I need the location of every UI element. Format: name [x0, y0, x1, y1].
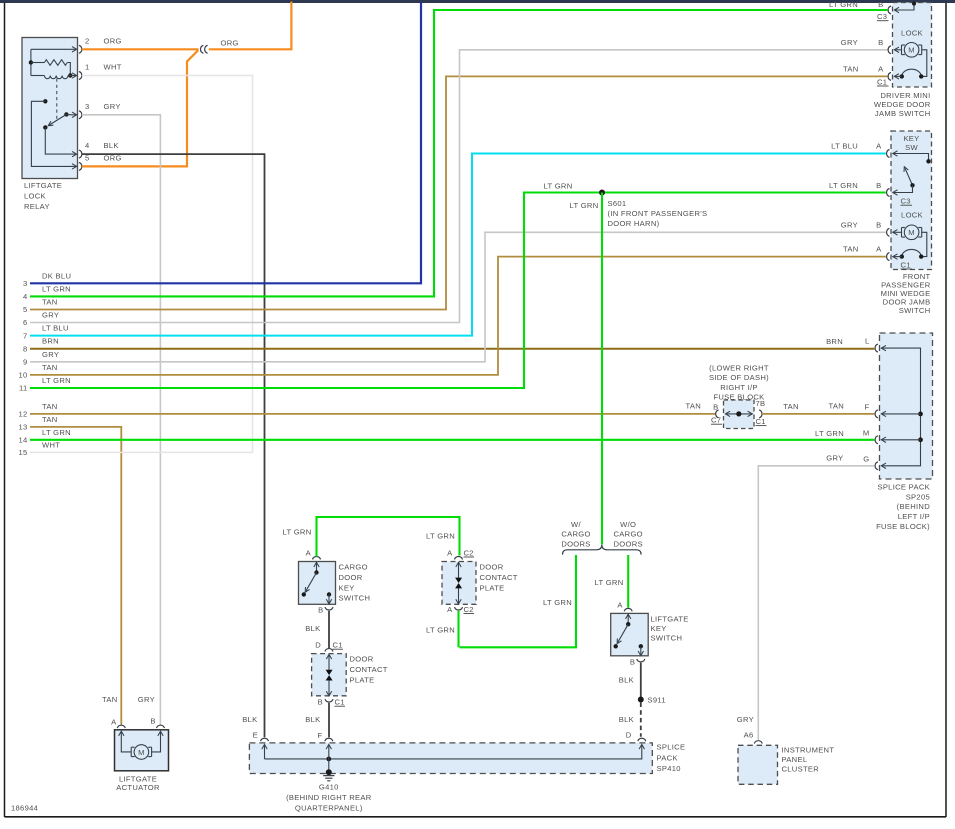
svg-text:SP410: SP410 — [657, 764, 681, 773]
svg-text:A: A — [111, 717, 117, 726]
svg-text:C1: C1 — [335, 698, 345, 707]
svg-text:L: L — [865, 337, 870, 346]
svg-text:186944: 186944 — [11, 803, 38, 812]
splice pack SP205 — [876, 333, 932, 531]
svg-text:DRIVER MINI: DRIVER MINI — [880, 91, 930, 100]
svg-text:LT GRN: LT GRN — [426, 626, 455, 635]
fuse block connector contacts — [716, 410, 762, 418]
wire TAN row 10 to passenger jamb switch A — [18, 257, 885, 380]
svg-text:W/O: W/O — [620, 520, 636, 529]
wire ORG relay pin 2 to inline connector — [82, 48, 199, 50]
svg-text:PLATE: PLATE — [480, 583, 505, 592]
svg-text:A: A — [876, 142, 882, 151]
svg-text:C3: C3 — [901, 197, 911, 206]
svg-text:TAN: TAN — [42, 298, 58, 307]
liftgate key switch pin A — [617, 600, 632, 611]
svg-text:GRY: GRY — [138, 695, 155, 704]
liftgate actuator motor — [119, 731, 164, 759]
svg-text:LT GRN: LT GRN — [829, 0, 858, 9]
svg-text:B: B — [318, 606, 323, 615]
svg-text:SPLICE: SPLICE — [657, 743, 686, 752]
svg-text:E: E — [253, 731, 258, 740]
svg-text:ACTUATOR: ACTUATOR — [116, 783, 160, 792]
door contact plate C2 contact symbol — [455, 556, 463, 610]
svg-text:GRY: GRY — [841, 38, 858, 47]
door contact plate C1 — [312, 654, 388, 696]
relay pin 1 — [72, 63, 122, 80]
svg-text:TAN: TAN — [685, 402, 701, 411]
svg-text:CONTACT: CONTACT — [350, 665, 388, 674]
svg-text:LIFTGATE: LIFTGATE — [651, 615, 689, 624]
svg-text:KEY: KEY — [903, 134, 919, 143]
svg-text:WHT: WHT — [104, 63, 122, 72]
svg-text:GRY: GRY — [826, 454, 843, 463]
svg-text:G410: G410 — [319, 782, 339, 791]
passenger lock motor — [887, 211, 927, 261]
wire BLK relay pin 4 to splice pack SP410 — [82, 154, 265, 737]
wire LT GRN without-cargo-doors branch — [595, 555, 629, 608]
splice pack SP410 pin F label — [318, 731, 323, 740]
instrument panel cluster — [738, 745, 834, 784]
splice pack SP205 pin labels L F M G — [815, 337, 870, 464]
svg-text:KEY: KEY — [651, 624, 667, 633]
svg-text:TAN: TAN — [42, 363, 58, 372]
svg-text:LT GRN: LT GRN — [829, 181, 858, 190]
splice pack SP410 bus — [261, 738, 646, 772]
svg-text:LIFTGATE: LIFTGATE — [24, 181, 62, 190]
svg-text:3: 3 — [85, 102, 90, 111]
door contact plate C1 contact symbol — [325, 654, 333, 702]
relay switch — [31, 99, 71, 166]
passenger key switch contacts — [887, 134, 931, 197]
right I/P fuse block connector — [709, 363, 769, 428]
liftgate lock relay — [22, 38, 78, 212]
svg-text:S601: S601 — [608, 199, 627, 208]
svg-text:SW: SW — [905, 143, 918, 152]
svg-text:A: A — [306, 548, 312, 557]
svg-text:B: B — [878, 0, 883, 9]
ground G410 — [286, 769, 372, 812]
svg-text:B: B — [876, 220, 881, 229]
svg-text:4: 4 — [85, 141, 90, 150]
svg-text:SPLICE PACK: SPLICE PACK — [877, 482, 930, 491]
svg-text:LT GRN: LT GRN — [570, 201, 599, 210]
svg-text:TAN: TAN — [102, 695, 118, 704]
liftgate actuator pin B — [138, 695, 165, 728]
wire BLK liftgate key switch B to S911 — [619, 663, 641, 700]
svg-text:CARGO: CARGO — [339, 563, 368, 572]
wire TAN row 5 to driver jamb switch A — [23, 76, 887, 314]
svg-text:LOCK: LOCK — [901, 28, 923, 37]
door contact plate C2 pin A top — [447, 548, 474, 557]
svg-text:RELAY: RELAY — [24, 202, 50, 211]
inline connector ORG — [200, 39, 238, 54]
splice pack SP205 bus — [875, 344, 923, 470]
svg-text:SWITCH: SWITCH — [899, 306, 931, 315]
svg-text:TAN: TAN — [843, 245, 859, 254]
svg-text:CLUSTER: CLUSTER — [782, 764, 820, 773]
svg-text:B: B — [713, 402, 718, 411]
splice pack SP410 pin E label — [242, 715, 258, 739]
svg-text:D: D — [315, 641, 321, 650]
svg-text:A: A — [617, 600, 623, 609]
svg-text:RIGHT I/P: RIGHT I/P — [720, 383, 758, 392]
relay pin 3 — [72, 102, 121, 119]
svg-text:DOORS: DOORS — [614, 539, 643, 548]
svg-text:B: B — [878, 38, 883, 47]
svg-text:A: A — [878, 64, 884, 73]
svg-text:B: B — [318, 698, 323, 707]
svg-text:LT GRN: LT GRN — [595, 578, 624, 587]
svg-text:11: 11 — [19, 384, 27, 393]
wire ORG relay pin 5 riser — [82, 50, 198, 166]
wire LT GRN S601 down to option split — [570, 193, 602, 545]
svg-text:SIDE OF DASH): SIDE OF DASH) — [709, 373, 769, 382]
svg-text:14: 14 — [18, 436, 27, 445]
wire WHT relay pin 1 — [82, 76, 253, 453]
driver jamb switch pin labels B A C1 — [841, 38, 889, 87]
wire BLK S911 to splice pack SP410 D — [619, 703, 641, 737]
cargo door key switch pin A — [306, 548, 321, 559]
svg-text:4: 4 — [23, 292, 28, 301]
wire BLK door contact plate C1 to splice pack SP410 F — [305, 703, 329, 738]
svg-text:LEFT I/P: LEFT I/P — [898, 512, 930, 521]
relay coil — [29, 49, 73, 78]
driver mini wedge door jamb switch — [874, 3, 932, 118]
wire GRY row 6 to driver jamb switch B — [23, 50, 887, 327]
wire ORG inline connector to top edge — [209, 2, 292, 50]
svg-text:PANEL: PANEL — [782, 755, 808, 764]
wire LT GRN row 14 to splice pack SP205 M — [18, 428, 874, 445]
svg-text:C3: C3 — [877, 12, 887, 21]
svg-text:7: 7 — [23, 331, 28, 340]
cargo door key switch pin B — [318, 606, 333, 615]
wire BLK cargo key switch B to door contact plate C1 — [305, 611, 329, 649]
svg-text:CONTACT: CONTACT — [480, 573, 518, 582]
front passenger mini wedge door jamb switch — [881, 131, 932, 315]
relay pin 4 — [72, 141, 119, 158]
instrument panel cluster pin A6 — [744, 731, 763, 744]
svg-text:FUSE BLOCK): FUSE BLOCK) — [876, 522, 930, 531]
svg-text:G: G — [863, 454, 869, 463]
svg-text:WEDGE DOOR: WEDGE DOOR — [874, 100, 931, 109]
svg-text:DOOR: DOOR — [480, 563, 504, 572]
svg-text:2: 2 — [85, 36, 90, 45]
svg-text:C2: C2 — [464, 605, 474, 614]
svg-text:BRN: BRN — [826, 337, 843, 346]
svg-text:9: 9 — [23, 358, 28, 367]
wire TAN row 12 to fuse block and SP205 F — [18, 402, 715, 419]
svg-text:M: M — [138, 748, 145, 757]
splice pack SP410 — [249, 743, 685, 774]
node S601 — [544, 182, 708, 228]
wire LT GRN cargo key switch A to door contact plate C2 — [283, 517, 460, 557]
wire LT GRN with-cargo-doors branch — [460, 555, 577, 647]
wire BRN row 8 to splice pack SP205 L — [23, 337, 874, 354]
svg-text:DOOR: DOOR — [350, 655, 374, 664]
relay pin 5 — [72, 153, 122, 170]
svg-text:C1: C1 — [877, 77, 887, 86]
wire LT GRN row 11 to passenger jamb switch C3-B — [19, 193, 886, 393]
relay actuation link — [56, 79, 58, 120]
wire TAN row 13 to liftgate actuator A — [18, 415, 121, 725]
svg-text:M: M — [908, 228, 915, 237]
svg-text:C1: C1 — [756, 417, 766, 426]
svg-text:W/: W/ — [571, 520, 581, 529]
svg-text:LT GRN: LT GRN — [815, 429, 844, 438]
driver jamb switch pin B connector C3 — [829, 0, 916, 21]
svg-text:LOCK: LOCK — [901, 211, 923, 220]
svg-text:LT GRN: LT GRN — [42, 428, 71, 437]
svg-text:DK BLU: DK BLU — [42, 271, 71, 280]
svg-text:PLATE: PLATE — [350, 675, 375, 684]
svg-text:A: A — [447, 548, 453, 557]
svg-text:M: M — [863, 428, 870, 437]
label 186944 — [11, 803, 38, 812]
wire WHT row 15 to relay pin 1 — [18, 440, 252, 457]
svg-text:C1: C1 — [901, 260, 911, 269]
svg-text:WHT: WHT — [42, 440, 60, 449]
svg-text:TAN: TAN — [42, 402, 58, 411]
svg-text:SP205: SP205 — [906, 492, 930, 501]
cargo door key switch contacts — [302, 562, 332, 604]
svg-text:5: 5 — [23, 305, 28, 314]
svg-text:CARGO: CARGO — [614, 530, 643, 539]
svg-text:LT GRN: LT GRN — [544, 182, 573, 191]
svg-text:BLK: BLK — [619, 715, 634, 724]
svg-text:D: D — [626, 730, 632, 739]
svg-text:BRN: BRN — [42, 337, 59, 346]
svg-text:BLK: BLK — [242, 715, 257, 724]
svg-text:F: F — [865, 402, 870, 411]
svg-text:ORG: ORG — [221, 39, 239, 48]
svg-text:SWITCH: SWITCH — [339, 594, 371, 603]
svg-text:ORG: ORG — [104, 36, 122, 45]
node S911 — [638, 695, 666, 704]
option split W/ CARGO DOORS vs W/O CARGO DOORS — [561, 520, 643, 555]
svg-text:(BEHIND RIGHT REAR: (BEHIND RIGHT REAR — [286, 793, 372, 802]
wire LT BLU row 7 to passenger jamb switch A — [23, 154, 886, 341]
svg-text:GRY: GRY — [104, 102, 121, 111]
svg-text:B: B — [876, 181, 881, 190]
splice pack SP410 pin D label — [626, 730, 632, 739]
door contact plate C2 pin A bottom — [447, 605, 474, 614]
svg-text:GRY: GRY — [737, 715, 754, 724]
svg-text:LT GRN: LT GRN — [42, 376, 71, 385]
svg-text:GRY: GRY — [42, 350, 59, 359]
svg-text:C7: C7 — [711, 416, 721, 425]
door contact plate C2 — [442, 562, 518, 605]
svg-text:BLK: BLK — [305, 715, 320, 724]
svg-text:(BEHIND: (BEHIND — [897, 502, 931, 511]
svg-text:SWITCH: SWITCH — [651, 634, 683, 643]
svg-text:A: A — [447, 605, 453, 614]
driver jamb switch lock motor — [888, 28, 927, 80]
svg-text:8: 8 — [23, 344, 28, 353]
relay pin 2 — [72, 36, 122, 53]
svg-text:LT GRN: LT GRN — [42, 284, 71, 293]
svg-text:A6: A6 — [744, 731, 754, 740]
svg-text:BLK: BLK — [305, 624, 320, 633]
passenger key switch pin labels A B C3 — [829, 142, 912, 206]
svg-text:A: A — [876, 245, 882, 254]
cargo door key switch — [299, 562, 371, 605]
svg-text:(IN FRONT PASSENGER'S: (IN FRONT PASSENGER'S — [608, 209, 708, 218]
svg-text:(LOWER RIGHT: (LOWER RIGHT — [709, 363, 769, 372]
svg-text:1: 1 — [85, 63, 90, 72]
svg-text:JAMB SWITCH: JAMB SWITCH — [875, 109, 931, 118]
svg-text:7B: 7B — [756, 399, 766, 408]
svg-text:GRY: GRY — [42, 311, 59, 320]
svg-text:S911: S911 — [648, 695, 666, 704]
wire LT GRN row 4 to driver jamb switch C3-B — [23, 10, 887, 301]
wire LT GRN door contact plate C2 to branch — [426, 611, 458, 648]
svg-text:TAN: TAN — [828, 402, 844, 411]
svg-text:12: 12 — [18, 410, 27, 419]
svg-text:B: B — [150, 717, 155, 726]
wire GRY instrument cluster A6 to splice pack SP205 G — [737, 466, 875, 740]
svg-text:DOOR: DOOR — [339, 573, 363, 582]
svg-text:LT GRN: LT GRN — [543, 598, 572, 607]
wire TAN fuse block C1 to splice pack SP205 F — [762, 413, 874, 415]
svg-text:LOCK: LOCK — [24, 192, 46, 201]
svg-text:C2: C2 — [464, 548, 474, 557]
svg-text:B: B — [630, 657, 635, 666]
liftgate actuator pin A — [102, 695, 125, 728]
svg-text:QUARTERPANEL): QUARTERPANEL) — [295, 803, 363, 812]
svg-text:6: 6 — [23, 318, 28, 327]
svg-text:M: M — [908, 46, 915, 55]
passenger jamb switch pin labels B A C1 — [841, 220, 912, 269]
svg-text:LT BLU: LT BLU — [831, 142, 858, 151]
liftgate key switch pin B — [630, 657, 645, 666]
door contact plate C1 pin B — [318, 698, 345, 707]
liftgate key switch contacts — [614, 614, 644, 656]
door contact plate C1 pin D — [315, 641, 343, 652]
svg-text:LT BLU: LT BLU — [42, 324, 69, 333]
svg-text:15: 15 — [18, 448, 27, 457]
svg-text:DOORS: DOORS — [561, 539, 590, 548]
svg-text:F: F — [318, 731, 323, 740]
svg-text:PACK: PACK — [657, 753, 678, 762]
svg-text:LT GRN: LT GRN — [426, 532, 455, 541]
wire GRY row 9 to passenger jamb switch B — [23, 232, 886, 366]
svg-text:BLK: BLK — [619, 675, 634, 684]
svg-text:KEY: KEY — [339, 583, 355, 592]
wire GRY relay pin 3 to liftgate actuator — [82, 115, 161, 725]
svg-text:TAN: TAN — [42, 415, 58, 424]
liftgate actuator — [115, 730, 169, 792]
svg-text:INSTRUMENT: INSTRUMENT — [782, 745, 835, 754]
svg-text:TAN: TAN — [843, 64, 859, 73]
svg-text:3: 3 — [23, 279, 28, 288]
svg-text:13: 13 — [18, 423, 27, 432]
wire DK BLU row 3 to top edge — [23, 2, 421, 288]
svg-text:BLK: BLK — [104, 141, 119, 150]
svg-text:CARGO: CARGO — [561, 530, 590, 539]
svg-text:TAN: TAN — [783, 402, 799, 411]
svg-text:DOOR HARN): DOOR HARN) — [608, 219, 660, 228]
svg-text:C1: C1 — [333, 641, 343, 650]
svg-text:LT GRN: LT GRN — [283, 528, 312, 537]
svg-text:10: 10 — [18, 371, 27, 380]
svg-text:GRY: GRY — [841, 220, 858, 229]
liftgate key switch — [611, 613, 689, 655]
fuse block connector labels B 7B C7 C1 — [685, 399, 798, 426]
